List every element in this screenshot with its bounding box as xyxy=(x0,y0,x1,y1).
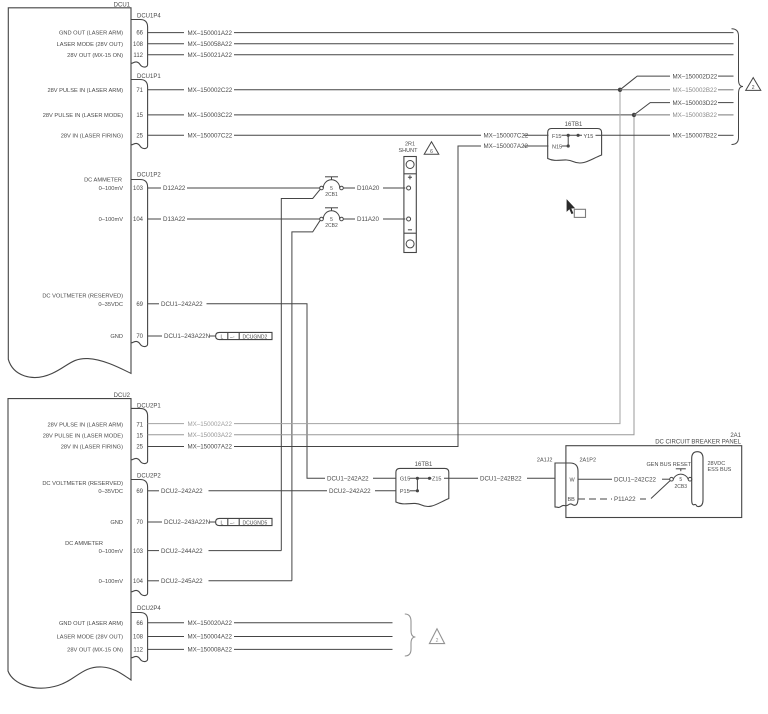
svg-text:DCU2: DCU2 xyxy=(114,393,131,399)
wire MX-150058A22 row 108 xyxy=(148,41,734,48)
svg-text:MX–150021A22: MX–150021A22 xyxy=(188,52,233,59)
svg-text:16TB1: 16TB1 xyxy=(415,462,433,468)
svg-text:Z15: Z15 xyxy=(432,477,441,483)
wire DCU2-244A22 row 103 up to 2CB1 xyxy=(148,548,282,555)
connector DCU1P1 xyxy=(131,74,161,148)
svg-text:D12A22: D12A22 xyxy=(163,185,186,192)
flag note triangle 2 (top right) xyxy=(746,78,761,91)
svg-text:MX–150002A22: MX–150002A22 xyxy=(188,421,233,428)
svg-text:GND: GND xyxy=(110,334,123,340)
svg-text:MX–150007C22: MX–150007C22 xyxy=(484,133,529,140)
svg-text:ESS BUS: ESS BUS xyxy=(708,467,732,473)
mouse cursor arrow xyxy=(567,199,576,214)
svg-text:GND OUT (LASER ARM): GND OUT (LASER ARM) xyxy=(59,621,123,627)
svg-text:2CB2: 2CB2 xyxy=(325,223,338,229)
connector DCU1P2 xyxy=(131,173,161,347)
wire MX-150003D22 branch xyxy=(634,100,734,115)
svg-text:DCU2P2: DCU2P2 xyxy=(137,474,161,480)
svg-text:71: 71 xyxy=(136,422,143,428)
svg-text:MX–150007A22: MX–150007A22 xyxy=(484,143,529,150)
wire MX-150021A22 row 112 xyxy=(148,52,734,59)
wire MX-150002C22 row 71 xyxy=(148,87,620,94)
svg-text:28V PULSE IN (LASER ARM): 28V PULSE IN (LASER ARM) xyxy=(47,88,123,94)
svg-text:MX–150002D22: MX–150002D22 xyxy=(673,73,718,80)
bus bar 28VDC ESS BUS xyxy=(692,452,732,507)
svg-text:DCUGND5: DCUGND5 xyxy=(243,520,268,526)
svg-text:2R1: 2R1 xyxy=(405,142,415,148)
wire D13A22 row 104 xyxy=(148,216,320,223)
svg-text:71: 71 xyxy=(136,88,143,94)
svg-text:SHUNT: SHUNT xyxy=(399,148,419,154)
svg-text:G15: G15 xyxy=(400,477,410,483)
wire MX-150020A22 row 66 xyxy=(148,620,393,627)
wire MX-150003B22 continuation xyxy=(634,112,734,119)
wire 2CB1 left branch down to DCU2 pin 103 xyxy=(281,189,320,550)
svg-text:DCU2–244A22: DCU2–244A22 xyxy=(161,548,203,555)
breaker 2CB2 xyxy=(320,208,344,229)
svg-text:0–100mV: 0–100mV xyxy=(99,549,124,555)
wire DCU1-242A22 row 69 to lower 16TB1 G15 xyxy=(148,301,396,483)
wire MX-150007C22 row 25 xyxy=(148,133,549,140)
svg-text:F15: F15 xyxy=(552,134,561,140)
wire P11A22 dashed from pin BB to 2CB3 xyxy=(578,481,670,503)
connector DCU2P2 xyxy=(131,474,161,596)
svg-text:28V IN (LASER FIRING): 28V IN (LASER FIRING) xyxy=(61,133,123,139)
breaker 2CB1 xyxy=(320,177,344,198)
svg-text:MX–150003A22: MX–150003A22 xyxy=(188,432,233,439)
svg-text:2: 2 xyxy=(752,85,755,91)
svg-text:2A1P2: 2A1P2 xyxy=(580,458,597,464)
svg-text:MX–150003C22: MX–150003C22 xyxy=(188,112,233,119)
svg-text:112: 112 xyxy=(133,648,143,654)
svg-text:LASER MODE (28V OUT): LASER MODE (28V OUT) xyxy=(57,42,123,48)
svg-text:MX–150008A22: MX–150008A22 xyxy=(188,647,233,654)
svg-text:MX–150020A22: MX–150020A22 xyxy=(188,620,233,627)
svg-text:MX–150001A22: MX–150001A22 xyxy=(188,30,233,37)
svg-text:2: 2 xyxy=(436,638,439,644)
svg-text:DCU1–242C22: DCU1–242C22 xyxy=(614,476,657,483)
svg-text:DC AMMETER: DC AMMETER xyxy=(65,541,103,547)
svg-text:DC VOLTMETER (RESERVED): DC VOLTMETER (RESERVED) xyxy=(42,481,123,487)
svg-text:16TB1: 16TB1 xyxy=(565,122,583,128)
wire MX-150002D22 branch xyxy=(620,73,734,90)
svg-text:2CB1: 2CB1 xyxy=(325,192,338,198)
svg-text:DCUGND2: DCUGND2 xyxy=(243,334,268,340)
svg-text:6: 6 xyxy=(430,149,433,155)
svg-text:DCU2–242A22: DCU2–242A22 xyxy=(329,488,371,495)
unit DCU2 (box with torn bottom edge) xyxy=(8,393,131,688)
svg-text:69: 69 xyxy=(136,302,143,308)
wire MX-150003A22 row 15 up to junction xyxy=(148,115,634,439)
unit DCU1 (box with torn bottom edge) xyxy=(8,3,131,378)
svg-text:MX–150003D22: MX–150003D22 xyxy=(673,100,718,107)
connector 2A1J2 / 2A1P2 xyxy=(537,458,596,508)
svg-text:–◦: –◦ xyxy=(230,520,235,526)
svg-text:GND: GND xyxy=(110,520,123,526)
svg-text:DC VOLTMETER (RESERVED): DC VOLTMETER (RESERVED) xyxy=(42,294,123,300)
svg-text:D13A22: D13A22 xyxy=(163,216,186,223)
svg-text:28V PULSE IN (LASER ARM): 28V PULSE IN (LASER ARM) xyxy=(47,422,123,428)
connector DCU1P4 xyxy=(131,14,161,67)
svg-text:L: L xyxy=(221,334,224,340)
terminal board 16TB1 (upper) xyxy=(548,122,602,163)
svg-text:70: 70 xyxy=(136,334,143,340)
svg-text:DCU2P4: DCU2P4 xyxy=(137,606,161,612)
svg-text:DCU2–243A22N: DCU2–243A22N xyxy=(164,519,210,526)
cursor drag rectangle xyxy=(574,209,585,217)
svg-text:BB: BB xyxy=(568,497,576,503)
svg-text:GND OUT (LASER ARM): GND OUT (LASER ARM) xyxy=(59,31,123,37)
wire MX-150004A22 row 108 xyxy=(148,634,393,641)
svg-text:112: 112 xyxy=(133,53,143,59)
svg-text:0–100mV: 0–100mV xyxy=(99,579,124,585)
svg-text:104: 104 xyxy=(133,579,144,585)
svg-text:0–35VDC: 0–35VDC xyxy=(98,302,123,308)
svg-text:66: 66 xyxy=(136,31,143,37)
shunt 2R1 xyxy=(399,142,419,253)
svg-text:66: 66 xyxy=(136,621,143,627)
svg-text:DCU2–245A22: DCU2–245A22 xyxy=(161,578,203,585)
svg-text:DCU1–242A22: DCU1–242A22 xyxy=(327,476,369,483)
svg-text:103: 103 xyxy=(133,186,144,192)
svg-text:DCU1–242A22: DCU1–242A22 xyxy=(161,301,203,308)
wire DCU1-242B22 from Z15 to 2A1J2 pin W xyxy=(444,476,555,483)
ground terminal DCUGND5 xyxy=(216,518,272,526)
junction node on row 71 xyxy=(618,88,622,92)
svg-text:DCU1: DCU1 xyxy=(114,3,131,9)
svg-text:–◦: –◦ xyxy=(230,334,235,340)
wire 2CB2 left branch down to DCU2 pin 104 xyxy=(292,220,320,581)
svg-text:N15: N15 xyxy=(552,144,562,150)
junction node on row 15 xyxy=(632,113,636,117)
svg-text:P11A22: P11A22 xyxy=(614,496,636,503)
svg-text:28V OUT (MX-15 ON): 28V OUT (MX-15 ON) xyxy=(67,53,123,59)
svg-text:0–100mV: 0–100mV xyxy=(99,186,124,192)
ground terminal DCUGND2 xyxy=(216,332,272,340)
wire DCU1-242C22 pin W to 2CB3 xyxy=(578,476,670,483)
wire DCU2-243A22N row 70 with ground terminal DCUGND5 xyxy=(148,519,216,526)
wire D10A20 from 2CB1 to shunt xyxy=(343,185,405,192)
svg-text:103: 103 xyxy=(133,549,144,555)
svg-text:GEN BUS RESET: GEN BUS RESET xyxy=(647,462,692,468)
svg-text:MX–150002C22: MX–150002C22 xyxy=(188,87,233,94)
wire MX-150008A22 row 112 xyxy=(148,647,393,654)
svg-text:108: 108 xyxy=(133,635,144,641)
svg-text:25: 25 xyxy=(136,133,143,139)
svg-text:2A1J2: 2A1J2 xyxy=(537,458,553,464)
svg-text:DCU1–242B22: DCU1–242B22 xyxy=(480,476,522,483)
svg-text:MX–150003B22: MX–150003B22 xyxy=(673,112,718,119)
wire MX-150002B22 continuation xyxy=(620,87,734,94)
wire DCU1-243A22N row 70 with ground terminal DCU1GND2 xyxy=(148,333,216,340)
svg-text:0–100mV: 0–100mV xyxy=(99,217,124,223)
breaker 2CB3 xyxy=(670,469,692,490)
svg-text:DCU2–242A22: DCU2–242A22 xyxy=(161,488,203,495)
svg-text:MX–150007B22: MX–150007B22 xyxy=(673,133,718,140)
connector DCU2P1 xyxy=(131,404,161,464)
svg-text:MX–150004A22: MX–150004A22 xyxy=(188,634,233,641)
wire D12A22 row 103 xyxy=(148,185,320,192)
svg-text:LASER MODE (28V OUT): LASER MODE (28V OUT) xyxy=(57,635,123,641)
wire MX-150001A22 row 66 xyxy=(148,30,734,37)
svg-text:28V IN (LASER FIRING): 28V IN (LASER FIRING) xyxy=(61,445,123,451)
wire MX-150007A22 row 25 up to 16TB1 N15 xyxy=(148,143,549,451)
svg-text:28VDC: 28VDC xyxy=(708,461,726,467)
svg-text:D10A20: D10A20 xyxy=(357,185,380,192)
flag note triangle 6 xyxy=(424,142,439,155)
svg-text:DCU1–243A22N: DCU1–243A22N xyxy=(164,333,210,340)
brace to sheet 2 (bottom) xyxy=(405,614,416,656)
svg-text:15: 15 xyxy=(136,434,143,440)
svg-text:28V OUT (MX-15 ON): 28V OUT (MX-15 ON) xyxy=(67,648,123,654)
svg-text:5: 5 xyxy=(679,477,682,483)
svg-text:DCU1P4: DCU1P4 xyxy=(137,14,161,20)
svg-text:25: 25 xyxy=(136,445,143,451)
brace to sheet 2 (top right) xyxy=(732,29,744,145)
wire DCU2-245A22 row 104 up to 2CB2 xyxy=(148,578,292,585)
svg-text:P15: P15 xyxy=(400,489,410,495)
wire DCU2-242A22 row 69 to lower 16TB1 P15 xyxy=(148,488,396,495)
svg-text:108: 108 xyxy=(133,42,144,48)
svg-text:MX–150002B22: MX–150002B22 xyxy=(673,87,718,94)
connector DCU2P4 xyxy=(131,606,161,661)
wire MX-150003C22 row 15 xyxy=(148,112,634,119)
svg-text:MX–150007C22: MX–150007C22 xyxy=(188,133,233,140)
svg-text:104: 104 xyxy=(133,217,144,223)
svg-text:2CB3: 2CB3 xyxy=(675,484,688,490)
svg-text:28V PULSE IN (LASER MODE): 28V PULSE IN (LASER MODE) xyxy=(43,434,123,440)
svg-text:DCU1P2: DCU1P2 xyxy=(137,173,161,179)
svg-text:L: L xyxy=(221,520,224,526)
svg-text:MX–150007A22: MX–150007A22 xyxy=(188,444,233,451)
wire MX-150002A22 row 71 up to junction xyxy=(148,90,620,428)
svg-text:69: 69 xyxy=(136,489,143,495)
svg-text:DC CIRCUIT BREAKER PANEL: DC CIRCUIT BREAKER PANEL xyxy=(655,440,741,446)
svg-text:28V PULSE IN (LASER MODE): 28V PULSE IN (LASER MODE) xyxy=(43,113,123,119)
svg-text:W: W xyxy=(570,477,576,483)
svg-text:DC AMMETER: DC AMMETER xyxy=(84,178,122,184)
svg-text:2A1: 2A1 xyxy=(730,433,741,439)
svg-text:0–35VDC: 0–35VDC xyxy=(98,489,123,495)
svg-text:D11A20: D11A20 xyxy=(357,216,379,223)
svg-text:MX–150058A22: MX–150058A22 xyxy=(188,41,233,48)
terminal board 16TB1 (lower) xyxy=(396,462,449,507)
panel 2A1 DC CIRCUIT BREAKER PANEL xyxy=(566,433,742,518)
wire MX-150007B22 from 16TB1 Y15 xyxy=(602,133,734,140)
wire D11A20 from 2CB2 to shunt xyxy=(343,216,405,223)
svg-text:Y15: Y15 xyxy=(584,134,594,140)
svg-text:15: 15 xyxy=(136,113,143,119)
flag note triangle 2 (bottom) xyxy=(429,629,444,644)
svg-text:70: 70 xyxy=(136,520,143,526)
